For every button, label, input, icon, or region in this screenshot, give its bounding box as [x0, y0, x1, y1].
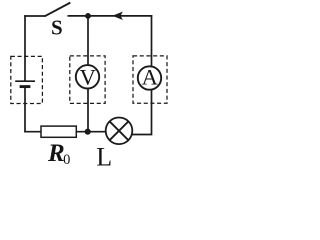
- wire: central vertical bottom (voltmeter to bottom node): [87, 89, 89, 132]
- wire: switch contact to top-right corner: [68, 15, 153, 17]
- wire: ammeter bottom to bottom-right corner and left to lamp: [132, 90, 152, 135]
- wire: central vertical top (node to voltmeter): [87, 16, 89, 66]
- svg-text:L: L: [96, 142, 112, 171]
- wire: top-left horizontal segment: [24, 15, 45, 17]
- svg-text:A: A: [142, 65, 159, 90]
- svg-text:S: S: [51, 15, 63, 39]
- wire: left vertical segment (top corner to battery + plate): [24, 15, 26, 80]
- lamp L cross diagonal 2: [110, 121, 129, 140]
- ammeter dashed box: [133, 56, 167, 103]
- battery short plate (-): [20, 85, 31, 88]
- voltmeter dashed box: [70, 56, 105, 104]
- battery long plate (+): [15, 80, 35, 82]
- wire: battery - plate down to bottom-left corner: [24, 88, 26, 133]
- resistor R0 body: [41, 126, 76, 137]
- current direction arrow: [112, 12, 123, 20]
- node: bottom junction dot: [85, 129, 91, 135]
- wire: bottom-left horizontal to resistor: [24, 131, 41, 133]
- svg-text:R0: R0: [47, 140, 70, 168]
- lamp L cross diagonal 1: [110, 121, 129, 140]
- voltmeter V circle: [76, 65, 99, 88]
- ammeter A circle: [138, 66, 161, 89]
- switch S blade: [45, 3, 71, 17]
- lamp L circle: [106, 118, 133, 145]
- svg-text:V: V: [80, 64, 96, 89]
- wire: right vertical segment (top corner to ammeter): [151, 15, 153, 66]
- node: top junction dot: [85, 13, 91, 19]
- battery dashed box: [11, 56, 43, 103]
- wire: resistor to lamp: [76, 131, 106, 133]
